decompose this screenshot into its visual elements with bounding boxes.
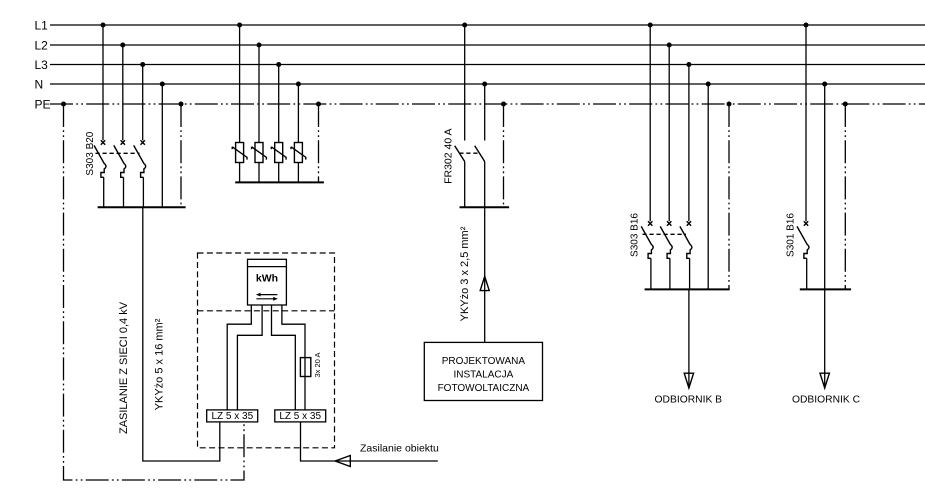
wire PE to S303 B16 bar — [728, 104, 730, 289]
terminal block LZ1 — [207, 410, 258, 422]
junction N tap FR302 — [482, 82, 487, 87]
wire PE to S303 B20 bar — [180, 104, 182, 207]
wire surge arrester 2 to SPD bar — [258, 163, 260, 183]
junction PE tap FR302 — [501, 102, 506, 107]
breaker S303 B20 pole 3 — [134, 140, 146, 207]
junction N tap SPD — [296, 82, 301, 87]
svg-text:ZASILANIE Z SIECI 0,4 kV: ZASILANIE Z SIECI 0,4 kV — [118, 301, 130, 434]
bus L2 — [35, 38, 925, 52]
svg-text:S303 B20: S303 B20 — [85, 131, 96, 175]
wire meter to LZ2 conductor 2 via fuse — [282, 305, 305, 410]
svg-text:L1: L1 — [35, 18, 49, 32]
wire meter to LZ2 conductor 1 — [272, 305, 296, 410]
label YKYzo 3 x 2,5 mm2 — [459, 226, 471, 321]
terminal block LZ2 — [275, 410, 326, 422]
label 3x 20 A — [313, 352, 322, 377]
wire meter to LZ1 conductor 1 — [227, 305, 251, 410]
arrow ODBIORNIK C — [820, 373, 829, 388]
svg-text:kWh: kWh — [256, 273, 278, 285]
label ODBIORNIK B — [655, 394, 723, 405]
label ODBIORNIK C — [792, 394, 861, 405]
bus N — [35, 77, 925, 91]
arrow to PV installation — [480, 276, 489, 290]
junction N tap S303 B16 — [706, 82, 711, 87]
junction L1 tap S301 B16 — [804, 23, 809, 28]
wire L3 to S303 B16 pole 3 — [688, 65, 690, 222]
busbar S303 B20 output — [98, 206, 186, 208]
surge arrester 1 — [232, 143, 247, 163]
junction L3 tap S303 B16 — [686, 62, 691, 67]
svg-text:S303 B16: S303 B16 — [630, 213, 641, 257]
junction L2 tap SPD — [257, 43, 262, 48]
breaker S303 B20 pole 2 — [114, 140, 126, 207]
wire N to FR302 pole 2 — [484, 84, 486, 141]
svg-text:PROJEKTOWANA: PROJEKTOWANA — [442, 356, 526, 367]
label S301 B16 — [786, 213, 797, 257]
surge arrester 3 — [271, 143, 286, 163]
breaker S303 B16 pole 2 — [660, 221, 672, 289]
wire PE earthing conductor to LZ1 — [64, 104, 245, 480]
svg-text:PE: PE — [35, 97, 51, 111]
svg-text:N: N — [35, 77, 44, 91]
bus L1 — [35, 18, 925, 32]
junction L1 tap SPD — [237, 23, 242, 28]
junction L2 tap S303 B16 — [667, 43, 672, 48]
enclosure divider (dashed) — [198, 310, 335, 312]
mechanical link S303 B20 — [96, 152, 140, 154]
wire to ODBIORNIK B — [688, 289, 690, 388]
junction PE left riser — [61, 102, 66, 107]
svg-text:3x 20 A: 3x 20 A — [313, 352, 322, 377]
label FR302 40 A — [443, 128, 455, 183]
svg-text:FR302 40 A: FR302 40 A — [443, 128, 455, 183]
svg-text:ODBIORNIK C: ODBIORNIK C — [792, 394, 861, 405]
wire L2 to S303 B20 pole 2 — [122, 45, 124, 140]
wire L1 to surge arrester 1 — [239, 25, 241, 143]
wire PV feeder YKYzo 3x2,5 — [484, 207, 486, 342]
junction PE tap SPD — [316, 102, 321, 107]
wire L3 to surge arrester 3 — [278, 65, 280, 143]
breaker S301 B16 pole — [797, 221, 809, 289]
svg-text:L3: L3 — [35, 58, 49, 72]
wire L1 to S303 B20 pole 1 — [102, 25, 104, 140]
wire L2 to surge arrester 2 — [258, 45, 260, 143]
breaker S303 B16 pole 3 — [680, 221, 692, 289]
wire PE to S301 B16 bar — [844, 104, 846, 289]
fuse 3x 20 A — [300, 358, 310, 377]
arrow ODBIORNIK B — [684, 373, 693, 388]
wire L1 to FR302 pole 1 — [464, 25, 466, 141]
switch FR302 pole 2 — [475, 146, 485, 208]
wire N to S303 B20 bar — [161, 84, 163, 207]
mechanical link S303 B16 — [643, 233, 687, 235]
label S303 B16 — [630, 213, 641, 257]
bus L3 — [35, 58, 925, 72]
bus PE — [35, 97, 925, 111]
svg-text:L2: L2 — [35, 38, 49, 52]
wire L1 to S303 B16 pole 1 — [649, 25, 651, 221]
label YKYzo 5 x 16 mm2 — [154, 318, 166, 410]
surge arrester 2 — [252, 143, 267, 163]
meter kWh — [248, 259, 287, 305]
breaker S303 B20 pole 1 — [94, 140, 106, 207]
junction L3 tap SPD — [276, 62, 281, 67]
junction L1 tap S303 B20 — [101, 23, 106, 28]
breaker S303 B16 pole 1 — [641, 221, 653, 289]
svg-text:LZ 5 x 35: LZ 5 x 35 — [279, 411, 321, 422]
svg-text:LZ 5 x 35: LZ 5 x 35 — [211, 411, 253, 422]
wire N to S301 B16 bar — [824, 84, 826, 289]
junction PE tap S301 B16 — [843, 102, 848, 107]
busbar SPD to PE — [235, 181, 324, 183]
wire L2 to S303 B16 pole 2 — [668, 45, 670, 221]
wire surge arrester 1 to SPD bar — [239, 163, 241, 183]
wire L3 to S303 B20 pole 3 — [142, 65, 144, 141]
wire supply cable YKYzo 5x16 to LZ1 — [143, 207, 220, 461]
svg-text:S301 B16: S301 B16 — [786, 213, 797, 257]
label Zasilanie obiektu — [360, 443, 439, 455]
svg-text:YKYżo 5 x 16 mm²: YKYżo 5 x 16 mm² — [154, 318, 166, 410]
junction PE tap S303 B16 — [727, 102, 732, 107]
wire meter to LZ1 conductor 2 — [237, 305, 262, 410]
mechanical link FR302 — [459, 152, 480, 154]
wire surge arrester 3 to SPD bar — [278, 163, 280, 183]
wire surge arrester 4 to SPD bar — [297, 163, 299, 183]
surge arrester 4 — [291, 143, 306, 163]
svg-text:ODBIORNIK B: ODBIORNIK B — [655, 394, 723, 405]
junction N tap S301 B16 — [822, 82, 827, 87]
busbar FR302 output — [460, 206, 510, 208]
wire N to S303 B16 bar — [707, 84, 709, 289]
svg-text:FOTOWOLTAICZNA: FOTOWOLTAICZNA — [438, 383, 530, 394]
wire building supply from LZ2 — [301, 422, 438, 461]
svg-text:INSTALACJA: INSTALACJA — [453, 370, 513, 381]
wire L1 to S301 B16 pole — [805, 25, 807, 221]
svg-text:YKYżo 3 x 2,5 mm²: YKYżo 3 x 2,5 mm² — [459, 226, 471, 321]
wire PE to SPD bar — [318, 104, 320, 182]
wire to ODBIORNIK C — [824, 289, 826, 388]
junction L1 tap S303 B16 — [648, 23, 653, 28]
junction L2 tap S303 B20 — [120, 43, 125, 48]
junction PE tap S303 B20 — [179, 102, 184, 107]
svg-text:Zasilanie obiektu: Zasilanie obiektu — [360, 443, 439, 455]
junction L3 tap S303 B20 — [140, 62, 145, 67]
label ZASILANIE Z SIECI 0,4 kV — [118, 301, 130, 434]
wire PE to FR302 bar — [503, 104, 505, 207]
arrow building supply — [335, 456, 350, 467]
junction N tap S303 B20 — [160, 82, 165, 87]
switch FR302 pole 1 — [455, 146, 465, 208]
label S303 B20 — [85, 131, 96, 175]
junction L1 tap FR302 — [462, 23, 467, 28]
box PROJEKTOWANA INSTALACJA FOTOWOLTAICZNA — [424, 342, 542, 400]
busbar S301 B16 output — [800, 288, 851, 290]
busbar S303 B16 output — [645, 288, 730, 290]
enclosure meter cabinet (dashed) — [198, 253, 335, 448]
wire N to surge arrester 4 — [297, 84, 299, 143]
